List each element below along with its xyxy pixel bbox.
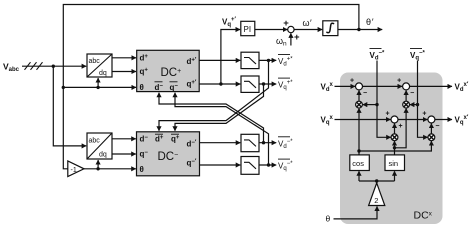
svg-text:sin: sin bbox=[389, 159, 399, 168]
svg-text:Vqx′: Vqx′ bbox=[455, 115, 469, 126]
svg-text:+: + bbox=[422, 111, 426, 118]
svg-text:Vdx′: Vdx′ bbox=[455, 82, 469, 93]
svg-text:Vq+′: Vq+′ bbox=[222, 17, 237, 28]
svg-text:+: + bbox=[386, 111, 390, 118]
svg-text:ω′: ω′ bbox=[303, 18, 313, 28]
svg-text:θ′: θ′ bbox=[366, 17, 374, 27]
svg-text:θ: θ bbox=[326, 214, 331, 224]
svg-text:dq: dq bbox=[99, 70, 107, 77]
svg-text:-1: -1 bbox=[71, 167, 77, 174]
svg-text:+: + bbox=[283, 18, 289, 29]
svg-text:−: − bbox=[435, 123, 439, 130]
svg-text:θ: θ bbox=[140, 83, 144, 92]
svg-text:Vq−*: Vq−* bbox=[278, 161, 293, 172]
svg-text:−: − bbox=[410, 90, 414, 97]
svg-text:−: − bbox=[363, 90, 367, 97]
svg-text:+: + bbox=[294, 32, 300, 43]
svg-text:+: + bbox=[399, 123, 403, 130]
svg-text:Vq−*: Vq−* bbox=[410, 51, 426, 62]
svg-text:abc: abc bbox=[89, 58, 101, 65]
svg-text:ωn: ωn bbox=[276, 36, 287, 48]
svg-text:Vq+*: Vq+* bbox=[278, 80, 293, 91]
svg-text:Vd−*: Vd−* bbox=[278, 139, 293, 150]
svg-text:+: + bbox=[397, 77, 401, 84]
svg-text:PI: PI bbox=[244, 25, 252, 34]
svg-text:Vd−*: Vd−* bbox=[370, 51, 386, 62]
svg-text:abc: abc bbox=[89, 138, 101, 145]
svg-text:Vd+*: Vd+* bbox=[278, 57, 293, 68]
svg-text:2: 2 bbox=[374, 196, 378, 205]
svg-text:cos: cos bbox=[352, 159, 364, 168]
svg-text:+: + bbox=[350, 77, 354, 84]
svg-text:Vqx: Vqx bbox=[321, 115, 334, 126]
svg-text:dq: dq bbox=[99, 151, 107, 158]
svg-text:Vdx: Vdx bbox=[321, 82, 334, 93]
svg-text:θ: θ bbox=[140, 165, 144, 174]
svg-text:Vabc: Vabc bbox=[3, 62, 20, 74]
